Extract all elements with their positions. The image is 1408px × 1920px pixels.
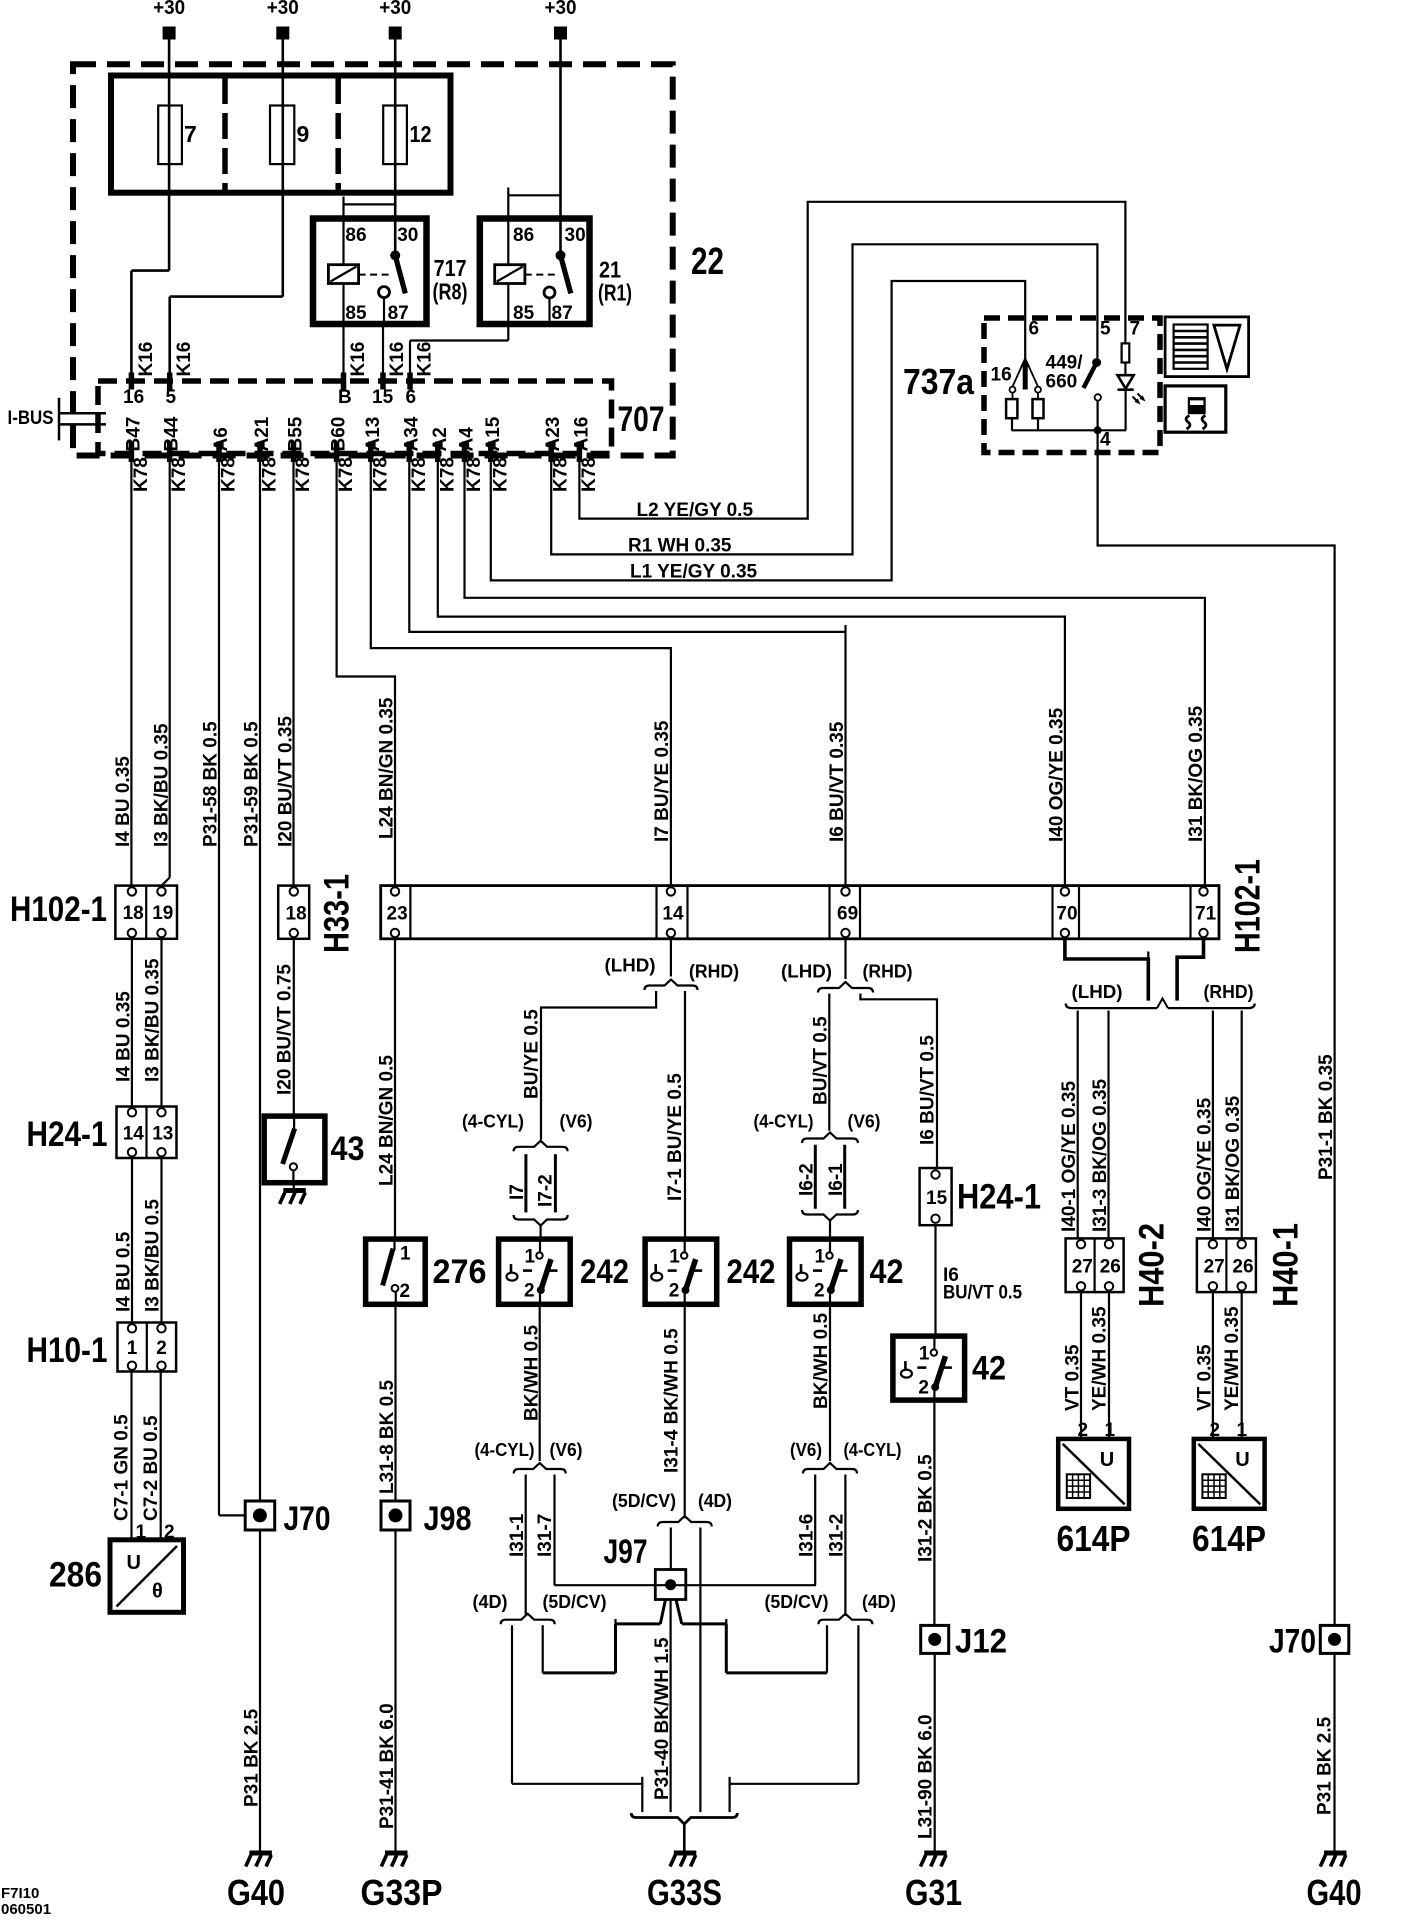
relay 717 (R8)	[313, 219, 427, 325]
svg-text:J70: J70	[1269, 1623, 1316, 1661]
merge I6-2/I6-1	[802, 1210, 858, 1221]
svg-text:15: 15	[926, 1188, 948, 1209]
wire R1 WH 0.35 (A23)	[551, 244, 1097, 554]
LED arrows	[1133, 397, 1139, 403]
svg-text:(V6): (V6)	[848, 1112, 881, 1132]
wire LHD branch	[541, 991, 656, 1140]
svg-text:K78: K78	[219, 457, 240, 492]
wire relay21 pin85 jog	[410, 339, 508, 341]
svg-text:K78: K78	[409, 457, 430, 492]
door switch 242 #1	[499, 1239, 571, 1304]
connector H10-1 pins 1/2	[118, 1323, 177, 1372]
svg-text:I20 BU/VT 0.75: I20 BU/VT 0.75	[275, 964, 296, 1095]
4D/5D-CV split left	[501, 1614, 555, 1625]
connector H24-1 pin 15	[920, 1168, 952, 1225]
svg-text:660: 660	[1046, 372, 1078, 393]
wire C7-1 GN 0.5	[130, 1372, 132, 1540]
svg-text:(RHD): (RHD)	[863, 962, 913, 982]
svg-text:A34: A34	[401, 416, 422, 451]
wire to G33S	[683, 1824, 686, 1851]
svg-text:J70: J70	[284, 1500, 331, 1538]
svg-text:I31-1: I31-1	[507, 1513, 528, 1557]
wire 4D bypass	[699, 1528, 701, 1813]
wire BK/WH 0.5 below 42#1	[829, 1304, 831, 1461]
wire I3 BK/BU 0.35 to H24-1	[160, 939, 162, 1107]
svg-text:I40 OG/YE 0.35: I40 OG/YE 0.35	[1195, 1097, 1216, 1232]
pin B47	[129, 442, 135, 463]
wire pin69 down	[844, 939, 846, 979]
fuse 9	[270, 106, 294, 165]
svg-text:I6 BU/VT 0.5: I6 BU/VT 0.5	[918, 1035, 939, 1145]
wire L31-90 BK 6.0 to G31	[934, 1653, 936, 1851]
wire P31-58 into J70	[219, 1514, 245, 1516]
svg-text:K78: K78	[293, 457, 314, 492]
icon box: panel illumination	[1165, 317, 1249, 377]
svg-text:A13: A13	[363, 417, 384, 452]
svg-text:BK/WH 0.5: BK/WH 0.5	[522, 1325, 543, 1422]
svg-text:θ: θ	[152, 1581, 163, 1603]
wire +30 fuse12 to relay717 pin30	[394, 40, 397, 256]
svg-text:16: 16	[991, 365, 1012, 386]
svg-text:I20 BU/VT 0.35: I20 BU/VT 0.35	[276, 716, 297, 847]
corner tick	[641, 1777, 643, 1784]
relay 717 pin30 contact	[390, 250, 400, 260]
branch arrow tick	[507, 188, 509, 196]
pin A4	[462, 442, 468, 463]
737a LED	[1118, 375, 1134, 388]
wire +30 to fuse9 down	[281, 40, 284, 297]
relay 21 (R1)	[480, 219, 590, 325]
svg-text:+30: +30	[545, 0, 577, 19]
wire pin70 (LHD)	[1065, 939, 1148, 1001]
wire relay21 pin85 down	[507, 284, 509, 341]
wire L31-8 BK 0.5	[394, 1304, 396, 1501]
junction J70	[245, 1501, 275, 1530]
ground below 43	[280, 1191, 306, 1205]
svg-text:060501: 060501	[1, 1901, 51, 1918]
svg-text:I4 BU 0.35: I4 BU 0.35	[114, 991, 135, 1082]
wire I3 BK/BU 0.5	[160, 1158, 162, 1323]
wire I31-2	[844, 1475, 846, 1617]
corner tick	[728, 1777, 730, 1784]
bar pin 69	[841, 887, 849, 895]
svg-text:I31-2 BK 0.5: I31-2 BK 0.5	[916, 1454, 937, 1562]
left bus lower	[543, 1671, 616, 1674]
4-CYL/V6 split below 242#1	[514, 1463, 566, 1474]
svg-text:12: 12	[410, 121, 432, 147]
svg-text:87: 87	[552, 303, 573, 324]
wire 4D right reroute	[730, 1784, 859, 1812]
svg-text:42: 42	[972, 1350, 1006, 1388]
wire I4 BU 0.35 (B47)	[130, 462, 132, 886]
svg-text:H40-1: H40-1	[1267, 1223, 1306, 1307]
fuse holder box	[111, 76, 451, 193]
pin A21	[257, 442, 263, 463]
svg-text:1: 1	[127, 1338, 138, 1359]
relay 717 switch arm	[395, 255, 405, 293]
svg-text:G40: G40	[1307, 1872, 1362, 1913]
J97 right leg	[676, 1600, 682, 1624]
svg-text:1: 1	[669, 1247, 680, 1268]
wire BK/WH 0.5 below 242#1	[539, 1304, 541, 1461]
svg-text:YE/WH 0.35: YE/WH 0.35	[1222, 1306, 1243, 1411]
right bus lower	[726, 1671, 827, 1674]
svg-text:(RHD): (RHD)	[1204, 982, 1254, 1002]
svg-text:(4D): (4D)	[862, 1592, 896, 1612]
svg-text:26: 26	[1232, 1256, 1253, 1277]
svg-text:A2: A2	[430, 427, 451, 451]
svg-text:J98: J98	[424, 1500, 472, 1538]
svg-text:P31-1 BK 0.35: P31-1 BK 0.35	[1316, 1054, 1337, 1180]
svg-text:J97: J97	[604, 1533, 648, 1571]
svg-text:(V6): (V6)	[560, 1112, 593, 1132]
fuse box divider 1	[222, 78, 228, 190]
svg-text:43: 43	[331, 1130, 365, 1168]
wire I31-1	[525, 1475, 527, 1617]
wire YE/WH 0.35 (H40-1)	[1241, 1292, 1243, 1439]
svg-text:85: 85	[345, 303, 367, 324]
svg-text:P31-40 BK/WH 1.5: P31-40 BK/WH 1.5	[652, 1637, 673, 1800]
svg-text:16: 16	[123, 387, 144, 408]
wire VT 0.35 (H40-2)	[1080, 1292, 1082, 1439]
svg-text:L31-90 BK 6.0: L31-90 BK 6.0	[916, 1714, 937, 1839]
wire branch to relay717 pin86	[344, 203, 396, 205]
wire I31-2 BK 0.5 to J12	[933, 1400, 935, 1625]
junction J70 (right)	[1320, 1625, 1349, 1653]
svg-text:B55: B55	[286, 416, 307, 451]
svg-text:H24-1: H24-1	[27, 1115, 108, 1154]
4-CYL/V6 split (I7)	[514, 1141, 568, 1152]
wire to pin 6	[409, 341, 411, 382]
svg-text:71: 71	[1195, 904, 1217, 925]
+30 terminal square x=560.5	[554, 27, 567, 40]
LHD/RHD crossover braces	[1066, 1004, 1157, 1009]
svg-text:K78: K78	[490, 457, 511, 492]
junction J98	[381, 1501, 410, 1530]
LHD/RHD split below pin 14	[645, 980, 698, 991]
door switch 42 #2	[893, 1336, 965, 1400]
relay 717 coil	[328, 265, 358, 284]
wire P31-58 BK 0.5 (A6)	[218, 462, 220, 1516]
svg-text:L2 YE/GY 0.5: L2 YE/GY 0.5	[637, 500, 754, 521]
svg-text:C7-1 GN 0.5: C7-1 GN 0.5	[112, 1414, 133, 1521]
temperature sensor 286	[110, 1540, 184, 1613]
wire I7 BU/YE 0.35 (A13)	[371, 462, 671, 886]
fuse box divider 2	[335, 78, 341, 190]
svg-text:1: 1	[815, 1247, 826, 1268]
svg-text:614P: 614P	[1057, 1518, 1131, 1559]
svg-text:6: 6	[406, 387, 417, 408]
svg-text:18: 18	[286, 904, 307, 925]
737a internal bottom bus	[1012, 429, 1127, 431]
svg-text:(5D/CV): (5D/CV)	[543, 1592, 607, 1612]
wire I31 BK/OG 0.35 (A4)	[465, 462, 1205, 886]
wire I6-2	[814, 1145, 817, 1209]
svg-text:(4D): (4D)	[698, 1491, 732, 1511]
svg-text:I7-2: I7-2	[536, 1174, 557, 1207]
junction J12	[921, 1625, 949, 1653]
svg-text:2: 2	[918, 1378, 929, 1399]
svg-text:J12: J12	[955, 1623, 1007, 1661]
left bus upper	[616, 1622, 661, 1625]
svg-text:K78: K78	[260, 457, 281, 492]
svg-text:U: U	[1235, 1449, 1249, 1471]
svg-text:I3 BK/BU 0.35: I3 BK/BU 0.35	[143, 958, 164, 1082]
corner tick	[844, 625, 846, 632]
connector H24-1 pins 14/13	[117, 1107, 177, 1159]
svg-text:I31-7: I31-7	[535, 1514, 556, 1557]
svg-text:K78: K78	[551, 457, 572, 492]
svg-text:P31-59 BK 0.5: P31-59 BK 0.5	[242, 721, 263, 847]
right bus upper	[682, 1622, 727, 1625]
svg-text:K78: K78	[464, 457, 485, 492]
svg-text:B47: B47	[123, 417, 144, 452]
bar pin 14	[667, 887, 675, 895]
svg-text:(4-CYL): (4-CYL)	[475, 1440, 535, 1460]
svg-text:A21: A21	[252, 416, 273, 451]
icon box: seat heater	[1165, 386, 1226, 432]
svg-text:I6 BU/VT 0.35: I6 BU/VT 0.35	[827, 721, 848, 842]
ground G31 symbol	[921, 1853, 947, 1867]
svg-text:BU/VT 0.5: BU/VT 0.5	[811, 1016, 832, 1105]
svg-text:I31-2: I31-2	[827, 1514, 848, 1557]
svg-text:(RHD): (RHD)	[689, 962, 739, 982]
svg-text:26: 26	[1100, 1256, 1121, 1277]
wire 5D/CV into J97	[670, 1528, 672, 1570]
pin A6	[216, 442, 222, 463]
ground G40 symbol	[246, 1853, 272, 1867]
junction to pin 4	[1094, 426, 1102, 434]
svg-text:87: 87	[388, 303, 409, 324]
svg-text:K78: K78	[370, 457, 391, 492]
svg-text:(LHD): (LHD)	[781, 962, 832, 982]
svg-text:86: 86	[513, 225, 534, 246]
svg-text:717: 717	[434, 255, 467, 281]
wire I4 BU 0.35 to H24-1	[131, 939, 133, 1107]
svg-text:K16: K16	[136, 342, 157, 377]
wire L1 YE/GY 0.35 (A15)	[491, 281, 1025, 580]
svg-text:R1 WH 0.35: R1 WH 0.35	[628, 536, 732, 557]
relay 21 coil	[495, 265, 525, 284]
svg-text:14: 14	[123, 1123, 145, 1144]
svg-text:I40 OG/YE 0.35: I40 OG/YE 0.35	[1047, 707, 1068, 842]
svg-text:(4-CYL): (4-CYL)	[754, 1112, 814, 1132]
wire I6 BU/VT 0.5 (RHD)	[860, 994, 937, 1169]
wire I6 BU/VT 0.35 (A34)	[409, 462, 845, 886]
svg-text:6: 6	[1029, 319, 1040, 340]
svg-text:F7I10: F7I10	[1, 1885, 39, 1902]
wire I7-1 BU/YE 0.5 (RHD)	[684, 991, 686, 1239]
svg-text:H102-1: H102-1	[1229, 859, 1268, 953]
relay 21 switch arm	[561, 255, 571, 293]
svg-text:I6-1: I6-1	[826, 1163, 847, 1196]
svg-text:K16: K16	[348, 342, 369, 377]
seat heating pad 614P #2 (RHD)	[1194, 1439, 1265, 1509]
wire into relay717 coil	[342, 204, 344, 264]
wire P31-59 BK 0.5 (A21)	[259, 462, 261, 1501]
svg-text:2: 2	[400, 1281, 411, 1302]
wire L24 BN/GN 0.35 (B60)	[337, 462, 395, 886]
svg-text:I31 BK/OG 0.35: I31 BK/OG 0.35	[1186, 705, 1207, 842]
svg-text:2: 2	[156, 1338, 167, 1359]
svg-text:70: 70	[1056, 904, 1077, 925]
svg-text:7: 7	[1130, 319, 1141, 340]
svg-text:1: 1	[400, 1244, 411, 1265]
wire P31-40 BK/WH 1.5	[669, 1600, 671, 1813]
wire 43 to ground	[293, 1183, 295, 1189]
svg-text:G33P: G33P	[361, 1872, 443, 1913]
wire I4 BU 0.5	[131, 1158, 133, 1323]
svg-text:(4-CYL): (4-CYL)	[844, 1440, 902, 1460]
svg-text:614P: 614P	[1192, 1518, 1266, 1559]
svg-text:449/: 449/	[1046, 353, 1084, 374]
svg-text:30: 30	[565, 225, 586, 246]
svg-text:B: B	[338, 387, 352, 408]
svg-text:H40-2: H40-2	[1133, 1223, 1172, 1307]
svg-text:K78: K78	[437, 457, 458, 492]
svg-text:27: 27	[1072, 1256, 1093, 1277]
relay 21 pin30 contact	[556, 250, 566, 260]
svg-text:5: 5	[1100, 319, 1111, 340]
svg-text:I7-1 BU/YE 0.5: I7-1 BU/YE 0.5	[665, 1073, 686, 1201]
svg-text:2: 2	[524, 1281, 535, 1302]
light switch 737a (dashed)	[984, 318, 1160, 453]
svg-text:42: 42	[870, 1253, 904, 1291]
wire fuse9 jog	[170, 295, 283, 298]
svg-text:B44: B44	[162, 416, 183, 451]
svg-text:2: 2	[814, 1281, 825, 1302]
svg-text:18: 18	[123, 903, 144, 924]
svg-text:242: 242	[580, 1253, 629, 1291]
svg-text:H102-1: H102-1	[10, 890, 107, 929]
svg-text:B60: B60	[329, 417, 350, 452]
svg-text:69: 69	[837, 904, 858, 925]
wire VT 0.35 (H40-1)	[1212, 1292, 1214, 1439]
wire +30 to fuse7 down	[168, 40, 171, 271]
wire C7-2 BU 0.5	[160, 1372, 162, 1540]
+30 terminal square x=169.1	[163, 27, 176, 40]
svg-text:(4-CYL): (4-CYL)	[462, 1112, 524, 1132]
wire 4D left reroute	[512, 1784, 642, 1812]
svg-text:30: 30	[397, 225, 418, 246]
svg-text:U: U	[1100, 1449, 1114, 1471]
svg-text:242: 242	[727, 1253, 776, 1291]
wire I40 OG/YE 0.35	[1212, 1011, 1214, 1239]
wire I31 BK/OG 0.35	[1241, 1011, 1243, 1239]
svg-text:G31: G31	[905, 1872, 962, 1913]
svg-text:G33S: G33S	[647, 1872, 722, 1913]
wire I6-1	[843, 1145, 846, 1209]
pin A2	[435, 442, 441, 463]
svg-text:YE/WH 0.35: YE/WH 0.35	[1090, 1306, 1111, 1411]
svg-text:C7-2 BU 0.5: C7-2 BU 0.5	[141, 1415, 162, 1521]
svg-text:I7: I7	[507, 1184, 528, 1200]
svg-text:(R8): (R8)	[433, 279, 468, 305]
bar pin 71	[1199, 887, 1207, 895]
svg-text:13: 13	[152, 1123, 173, 1144]
pin B55	[291, 442, 297, 463]
door switch 42 #1	[790, 1239, 862, 1304]
ground G40 right symbol	[1320, 1853, 1346, 1867]
connector H40-2	[1066, 1238, 1124, 1292]
relay 717 pin87 contact	[379, 287, 390, 298]
svg-text:I31-6: I31-6	[797, 1514, 818, 1557]
svg-text:(LHD): (LHD)	[1072, 982, 1123, 1002]
svg-text:85: 85	[513, 303, 535, 324]
connector H40-1	[1197, 1238, 1256, 1292]
svg-text:2: 2	[669, 1281, 680, 1302]
wire I31-6	[814, 1475, 816, 1586]
svg-text:L1 YE/GY 0.35: L1 YE/GY 0.35	[630, 562, 758, 583]
737a resistor a	[1006, 399, 1017, 418]
relay 717 actuation dashed line	[359, 274, 392, 276]
wire 5D/CV right	[826, 1625, 828, 1673]
svg-text:19: 19	[152, 903, 173, 924]
svg-text:BK/WH 0.5: BK/WH 0.5	[811, 1313, 832, 1410]
bar pin 23	[391, 887, 399, 895]
relay 21 pin87 contact	[544, 287, 555, 298]
wire I40-1 OG/YE 0.35	[1077, 1011, 1079, 1239]
wire +30 to relay21 pin30	[559, 40, 562, 256]
737a switch 449/660 (pin 5)	[1092, 358, 1101, 367]
svg-text:I6-2: I6-2	[797, 1163, 818, 1196]
control module 707 (dashed)	[98, 381, 612, 454]
svg-text:I3 BK/BU 0.35: I3 BK/BU 0.35	[152, 723, 173, 847]
svg-text:L24 BN/GN 0.35: L24 BN/GN 0.35	[377, 697, 398, 839]
connector H102-1 pins 18/19	[115, 886, 177, 939]
wire I3 BK/BU 0.35 (B44)	[169, 462, 171, 878]
wire into 42 #1	[829, 1221, 831, 1240]
svg-text:BU/VT 0.5: BU/VT 0.5	[943, 1283, 1022, 1304]
svg-text:H24-1: H24-1	[957, 1178, 1041, 1217]
svg-text:+30: +30	[153, 0, 185, 19]
wire I7-2	[554, 1154, 557, 1212]
svg-text:K78: K78	[579, 457, 600, 492]
wire K16 to pin5	[168, 297, 171, 381]
wire into 242 #1	[539, 1226, 541, 1240]
switch 43	[264, 1116, 325, 1183]
ground G33P symbol	[381, 1853, 407, 1867]
J97 left leg	[660, 1600, 665, 1624]
wire 4D right	[857, 1625, 859, 1784]
junction J97	[655, 1570, 686, 1600]
pin A23	[548, 442, 554, 463]
svg-text:I4 BU 0.5: I4 BU 0.5	[114, 1231, 135, 1312]
wire I31-3 BK/OG 0.35	[1107, 1011, 1109, 1239]
5D-CV/4D split (middle)	[658, 1516, 712, 1527]
4-CYL/V6 split (I6)	[802, 1133, 858, 1144]
wire L24 BN/GN 0.5	[394, 939, 396, 1239]
wire P31 BK 2.5 to G40	[259, 1530, 261, 1851]
svg-text:A4: A4	[457, 427, 478, 452]
wire I40 OG/YE 0.35 (A2)	[438, 462, 1065, 886]
svg-text:K78: K78	[131, 457, 152, 492]
LHD/RHD split below pin 69	[818, 982, 873, 993]
svg-text:VT 0.35: VT 0.35	[1195, 1344, 1216, 1411]
svg-text:K78: K78	[336, 457, 357, 492]
svg-text:737a: 737a	[903, 361, 975, 402]
707 top pins 16 5 B 15 6	[129, 373, 135, 390]
pin A34	[407, 442, 413, 463]
svg-text:9: 9	[297, 121, 310, 147]
pin B60	[334, 442, 340, 463]
svg-text:A23: A23	[543, 417, 564, 452]
svg-text:I4 BU 0.35: I4 BU 0.35	[113, 756, 134, 847]
svg-text:I31-3 BK/OG 0.35: I31-3 BK/OG 0.35	[1090, 1078, 1111, 1232]
svg-text:I31-4 BK/WH 0.5: I31-4 BK/WH 0.5	[662, 1328, 683, 1473]
wire BU/VT 0.5 (LHD)	[828, 994, 830, 1131]
svg-text:(V6): (V6)	[550, 1440, 583, 1460]
